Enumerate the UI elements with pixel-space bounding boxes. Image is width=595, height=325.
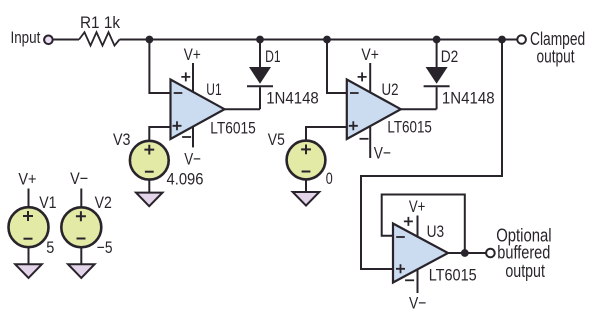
svg-text:U3: U3 xyxy=(427,222,445,241)
svg-text:LT6015: LT6015 xyxy=(387,118,432,137)
svg-text:U1: U1 xyxy=(206,80,221,99)
svg-text:1N4148: 1N4148 xyxy=(442,88,495,107)
svg-text:V+: V+ xyxy=(361,45,379,64)
svg-text:4.096: 4.096 xyxy=(167,169,204,188)
svg-text:1N4148: 1N4148 xyxy=(266,88,319,107)
svg-text:V3: V3 xyxy=(113,130,131,149)
svg-text:V−: V− xyxy=(70,169,88,188)
svg-text:output: output xyxy=(505,260,545,281)
svg-text:V−: V− xyxy=(409,293,426,312)
svg-text:LT6015: LT6015 xyxy=(429,265,477,284)
svg-text:D2: D2 xyxy=(441,47,459,66)
svg-text:V−: V− xyxy=(374,144,391,163)
svg-text:V+: V+ xyxy=(409,197,426,216)
svg-text:D1: D1 xyxy=(265,47,281,66)
svg-text:V1: V1 xyxy=(39,193,56,212)
svg-text:V2: V2 xyxy=(95,193,112,212)
svg-text:5: 5 xyxy=(46,238,54,257)
svg-text:V+: V+ xyxy=(184,45,201,64)
svg-text:V5: V5 xyxy=(268,130,285,149)
svg-text:output: output xyxy=(537,46,575,67)
svg-text:R1 1k: R1 1k xyxy=(80,13,120,32)
svg-text:0: 0 xyxy=(326,169,333,188)
svg-text:LT6015: LT6015 xyxy=(210,118,256,137)
svg-text:V+: V+ xyxy=(18,170,36,189)
svg-text:−5: −5 xyxy=(97,238,113,257)
svg-text:Input: Input xyxy=(11,28,41,47)
svg-text:U2: U2 xyxy=(382,80,399,99)
svg-text:V−: V− xyxy=(184,149,201,168)
